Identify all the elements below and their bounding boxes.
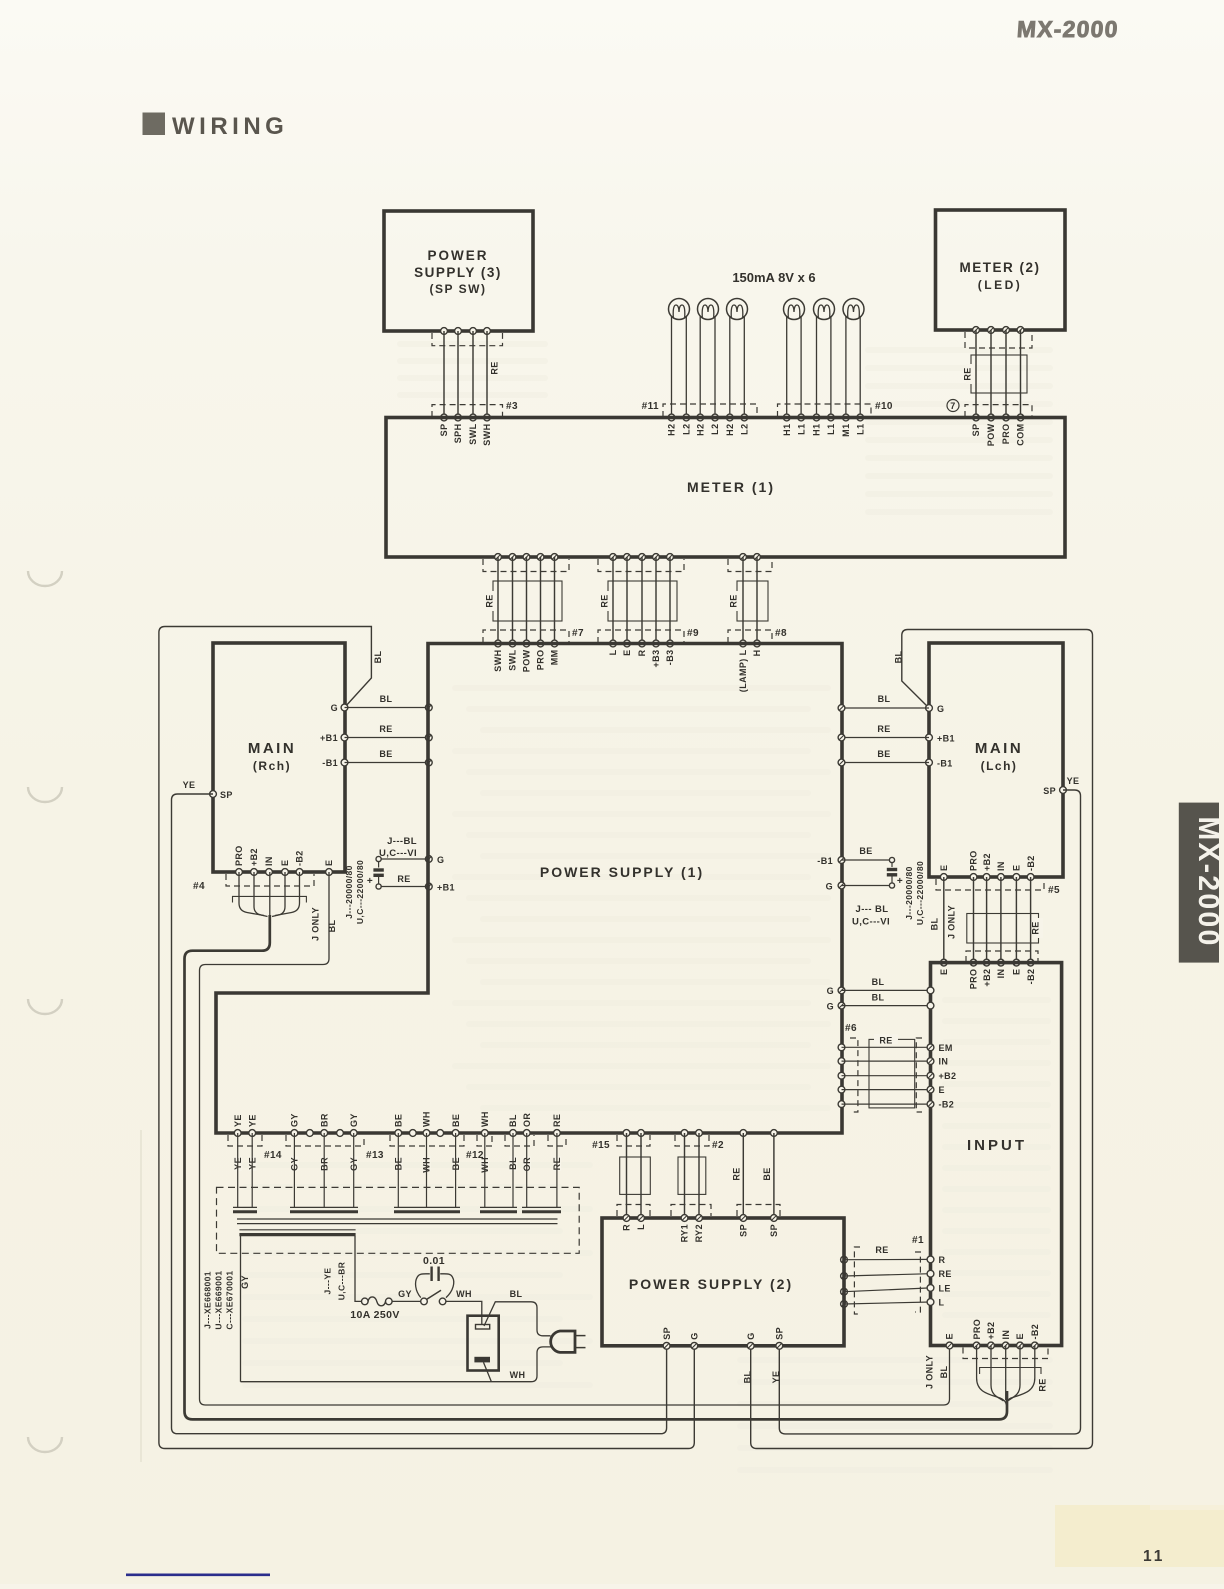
svg-text:MAIN: MAIN xyxy=(248,740,296,757)
svg-text:J--- BL: J--- BL xyxy=(856,904,889,915)
svg-text:BL: BL xyxy=(872,977,885,987)
labels J ONLY / BL on INPUT E wire xyxy=(925,1355,950,1389)
connector #8 upper dashed bracket xyxy=(728,559,772,572)
connector #7 pin labels xyxy=(493,649,560,672)
secondary wire color labels below edge xyxy=(233,1156,562,1173)
connector 7 pins on METER(1) top edge xyxy=(973,414,1024,421)
PS1 bottom pins above PS2 (R L RY1 RY2 SP SP) xyxy=(623,1130,777,1137)
svg-text:METER (2): METER (2) xyxy=(960,260,1041,275)
harness tie bracket #4 xyxy=(233,896,307,902)
pin labels R L RY1 RY2 SP SP xyxy=(622,1224,779,1242)
svg-text:BE: BE xyxy=(762,1167,772,1180)
svg-text:PRO: PRO xyxy=(969,969,979,990)
svg-text:SUPPLY (3): SUPPLY (3) xyxy=(414,265,502,280)
connector #6 dashed bracket left xyxy=(850,1038,858,1112)
svg-text:PRO: PRO xyxy=(536,650,546,671)
svg-text:J ONLY: J ONLY xyxy=(311,907,321,941)
svg-text:L: L xyxy=(608,649,618,655)
connector #4 dashed bracket and label xyxy=(193,874,314,892)
svg-text:BL: BL xyxy=(508,1114,518,1127)
block POWER SUPPLY (1) L-shaped xyxy=(216,644,842,1134)
svg-text:(SP SW): (SP SW) xyxy=(430,282,487,296)
svg-text:#10: #10 xyxy=(875,401,893,412)
connector dashed bracket under INPUT bottom pins xyxy=(963,1348,1048,1359)
svg-text:YE: YE xyxy=(771,1371,781,1384)
pin labels SP POW PRO COM xyxy=(971,423,1026,446)
PS2 right edge pins to connector #1 xyxy=(0,0,1,1)
svg-text:#2: #2 xyxy=(712,1140,724,1151)
svg-text:SWH: SWH xyxy=(493,650,503,672)
PS2 bottom edge pins SP G G SP xyxy=(663,1342,783,1349)
wire switch to AC receptacle WH xyxy=(446,1289,482,1325)
wire bundle INPUT bottom to frame (curves) xyxy=(977,1346,1035,1406)
connector #6 PS1-side pins xyxy=(838,1044,845,1108)
svg-text:L2: L2 xyxy=(740,424,750,435)
svg-text:#11: #11 xyxy=(642,401,659,412)
node -B1 MAIN Lch xyxy=(926,759,953,769)
wire YE speaker run left frame xyxy=(172,780,667,1434)
svg-text:GY: GY xyxy=(240,1275,250,1289)
svg-text:J---20000/80: J---20000/80 xyxy=(344,865,354,918)
svg-text:RE: RE xyxy=(600,594,610,607)
svg-text:E: E xyxy=(280,860,290,866)
connector #1 dashed bracket INPUT side xyxy=(915,1252,920,1312)
harness tie bracket #6 with RE label xyxy=(869,1034,915,1108)
wires PS1 to PS2 (R L RY1 RY2 SP SP) xyxy=(627,1133,774,1218)
pin labels E PRO +B2 IN E -B2 (INPUT top) xyxy=(939,969,1036,990)
svg-text:BL: BL xyxy=(939,1366,949,1379)
svg-text:11: 11 xyxy=(1143,1548,1165,1565)
svg-text:C---XE670001: C---XE670001 xyxy=(225,1270,235,1329)
svg-text:SWL: SWL xyxy=(468,423,478,444)
svg-text:SP: SP xyxy=(662,1327,672,1340)
svg-text:+B1: +B1 xyxy=(437,883,455,893)
connector #5 dashed bracket and label xyxy=(936,879,1060,896)
wire BE -B1 to PS1 xyxy=(345,749,429,763)
svg-text:#15: #15 xyxy=(592,1140,610,1151)
labels J ONLY / BL on Rch E wire xyxy=(311,907,338,941)
svg-text:#14: #14 xyxy=(264,1150,282,1161)
PS1 left edge pins G +B1 -B1 xyxy=(425,704,432,766)
svg-text:RE: RE xyxy=(485,594,495,607)
wire fuse to power switch GY xyxy=(392,1289,421,1301)
svg-text:E: E xyxy=(939,865,949,871)
svg-text:RE: RE xyxy=(963,367,973,380)
svg-text:+B2: +B2 xyxy=(249,848,259,866)
svg-text:150mA 8V x 6: 150mA 8V x 6 xyxy=(732,270,815,285)
svg-text:WH: WH xyxy=(456,1289,472,1299)
dashed brackets above PS2 top pins xyxy=(617,1205,780,1217)
connector #4 pins on MAIN Rch bottom edge xyxy=(236,869,333,876)
pin labels SP G G SP above PS2 bottom edge xyxy=(662,1327,785,1340)
svg-text:YE: YE xyxy=(1067,776,1080,786)
svg-text:#1: #1 xyxy=(912,1235,924,1246)
svg-text:COM: COM xyxy=(1016,424,1026,446)
svg-text:U,C---BR: U,C---BR xyxy=(337,1262,347,1301)
svg-text:E: E xyxy=(324,860,334,866)
wires MAIN Lch to INPUT top xyxy=(944,877,1031,963)
PS2 top edge pins xyxy=(623,1215,777,1222)
svg-text:SP: SP xyxy=(220,790,233,800)
svg-text:SP: SP xyxy=(739,1224,749,1237)
connector #15 dashed bracket and label xyxy=(592,1135,650,1151)
svg-text:H1: H1 xyxy=(782,424,792,436)
node +B1 MAIN Rch xyxy=(320,733,348,743)
svg-text:H: H xyxy=(752,650,762,657)
block POWER SUPPLY (3) (SP SW) xyxy=(384,211,533,331)
svg-text:H2: H2 xyxy=(725,424,735,436)
connector 7 dashed bracket xyxy=(965,405,1032,417)
svg-text:BL: BL xyxy=(872,992,885,1002)
wires R RE LE L PS2 to INPUT xyxy=(844,1245,931,1304)
wire harness METER(1) to PS1 #9 xyxy=(613,557,670,644)
svg-text:SP: SP xyxy=(1043,786,1056,796)
transformer T1 core xyxy=(237,1219,558,1224)
svg-text:IN: IN xyxy=(996,861,1006,871)
connector #2 dashed bracket and label xyxy=(675,1135,724,1151)
svg-text:OR: OR xyxy=(522,1113,532,1127)
dashed bracket above INPUT top pins xyxy=(966,951,1038,962)
svg-text:G: G xyxy=(690,1332,700,1339)
svg-text:PRO: PRO xyxy=(234,845,244,866)
connector #8 pins on METER(1) bottom edge xyxy=(740,554,761,561)
svg-text:U---XE669001: U---XE669001 xyxy=(214,1270,224,1329)
svg-text:POWER SUPPLY (2): POWER SUPPLY (2) xyxy=(629,1276,793,1292)
capacitor C-Lch value labels (vertical) xyxy=(904,861,925,925)
svg-text:+: + xyxy=(897,876,903,887)
svg-text:(Lch): (Lch) xyxy=(981,759,1018,773)
connector circled 7 mark xyxy=(947,400,959,412)
svg-text:-B2: -B2 xyxy=(1030,1324,1040,1340)
svg-text:J---XE668001: J---XE668001 xyxy=(203,1271,213,1329)
wire RE +B1 to PS1 (Lch) xyxy=(842,724,930,738)
electrolytic capacitor C-Lch 20000/80 across -B1 and G xyxy=(817,846,903,892)
INPUT bottom edge pins E PRO +B2 IN E -B2 xyxy=(946,1342,1038,1349)
connector #14 dashed bracket and label xyxy=(228,1135,282,1161)
block POWER SUPPLY (2) xyxy=(602,1218,844,1346)
svg-text:U,C---VI: U,C---VI xyxy=(379,848,417,859)
svg-text:L1: L1 xyxy=(855,424,865,435)
svg-text:YE: YE xyxy=(183,780,196,790)
harness tie bracket with RE label #8 xyxy=(729,581,768,621)
svg-text:BE: BE xyxy=(451,1114,461,1127)
connector #9 pins on PS1 top edge xyxy=(610,640,674,647)
svg-text:G: G xyxy=(826,882,833,892)
svg-text:#9: #9 xyxy=(687,628,699,639)
svg-text:WH: WH xyxy=(510,1370,526,1380)
connector #13 dashed bracket and label xyxy=(286,1135,384,1161)
svg-text:RE: RE xyxy=(490,361,500,374)
svg-text:PRO: PRO xyxy=(969,850,979,871)
transformer T1 dashed outline xyxy=(217,1187,580,1253)
svg-text:#12: #12 xyxy=(466,1150,484,1161)
AC plug P1 xyxy=(551,1331,586,1352)
wires G G BL BL PS1 to INPUT xyxy=(827,977,934,1012)
svg-text:SP: SP xyxy=(775,1327,785,1340)
electrolytic capacitor C-Rch 20000/80 across G and +B1 xyxy=(367,855,455,893)
svg-text:L2: L2 xyxy=(710,424,720,435)
svg-text:#8: #8 xyxy=(775,628,787,639)
connector #9 pins on METER(1) bottom edge xyxy=(610,554,674,561)
svg-text:RE: RE xyxy=(732,1167,742,1180)
svg-text:10A 250V: 10A 250V xyxy=(350,1309,400,1321)
harness tie bracket with RE label xyxy=(963,355,1027,393)
svg-text:J ONLY: J ONLY xyxy=(925,1355,935,1389)
svg-text:POWER: POWER xyxy=(427,248,488,263)
svg-text:U,C---VI: U,C---VI xyxy=(852,917,890,928)
connector #6 dashed bracket right xyxy=(916,1038,922,1112)
svg-text:SP: SP xyxy=(971,424,981,437)
connector on PS3 bottom edge (pins SP SPH SWL SWH) xyxy=(441,328,491,335)
wire harness METER(1) to PS1 #7 xyxy=(498,557,555,644)
svg-text:G: G xyxy=(437,855,444,865)
lamp pins on METER(1) top edge xyxy=(668,414,864,421)
wire bundle MAIN Rch #4 to INPUT via bottom frame (thick) xyxy=(185,872,1008,1419)
svg-text:POW: POW xyxy=(986,423,996,446)
node G MAIN Rch xyxy=(331,703,348,713)
svg-text:IN: IN xyxy=(996,969,1006,979)
svg-text:E: E xyxy=(939,1085,945,1095)
svg-text:-B1: -B1 xyxy=(937,759,953,769)
svg-text:H2: H2 xyxy=(695,424,705,436)
svg-text:BL: BL xyxy=(743,1371,753,1384)
svg-text:+B1: +B1 xyxy=(937,734,955,744)
connector #8 lower dashed bracket and label xyxy=(728,628,787,643)
svg-text:BE: BE xyxy=(859,846,872,856)
lamp PL5 (8V 150mA) xyxy=(814,299,835,418)
svg-text:G: G xyxy=(331,703,338,713)
svg-text:7: 7 xyxy=(950,401,955,411)
svg-text:RY1: RY1 xyxy=(680,1224,690,1242)
transformer T1 primary winding bar xyxy=(239,1230,355,1235)
svg-text:R: R xyxy=(622,1224,632,1231)
svg-text:BE: BE xyxy=(394,1114,404,1127)
svg-text:U,C---22000/80: U,C---22000/80 xyxy=(915,861,925,925)
pin labels E PRO +B2 IN E -B2 (Lch bottom) xyxy=(939,850,1036,871)
wire BL G to PS1 (Lch) xyxy=(842,694,930,708)
svg-text:#4: #4 xyxy=(193,881,205,892)
svg-text:L1: L1 xyxy=(826,424,836,435)
transformer T1 secondary pins on PS1 bottom edge xyxy=(234,1130,560,1137)
svg-text:BR: BR xyxy=(319,1113,329,1127)
svg-text:E: E xyxy=(939,969,949,975)
connector #6 INPUT-side pins with labels xyxy=(927,1043,956,1110)
svg-text:RY2: RY2 xyxy=(694,1224,704,1242)
svg-text:YE: YE xyxy=(247,1114,257,1127)
svg-text:BL: BL xyxy=(373,651,383,664)
lamp PL6 (8V 150mA) xyxy=(843,299,864,418)
svg-text:GY: GY xyxy=(290,1113,300,1127)
lamp PL2 (8V 150mA) xyxy=(698,299,719,418)
harness tie bracket #5 with RE label xyxy=(967,914,1043,944)
svg-text:R: R xyxy=(637,649,647,656)
svg-text:L1: L1 xyxy=(796,424,806,435)
node G MAIN Lch xyxy=(926,704,945,714)
svg-text:+B2: +B2 xyxy=(982,853,992,871)
block METER (2) (LED) xyxy=(936,210,1066,330)
svg-text:-B2: -B2 xyxy=(1026,855,1036,871)
connector #1 dashed bracket PS2 side xyxy=(854,1247,860,1314)
connector #9 upper dashed bracket xyxy=(598,559,684,572)
svg-text:G: G xyxy=(746,1332,756,1339)
svg-text:M1: M1 xyxy=(841,424,851,437)
svg-text:EM: EM xyxy=(939,1043,953,1053)
svg-text:IN: IN xyxy=(264,856,274,866)
svg-text:J---BL: J---BL xyxy=(387,836,417,847)
svg-text:+B2: +B2 xyxy=(982,969,992,987)
svg-text:U,C---22000/80: U,C---22000/80 xyxy=(355,860,365,924)
capacitor 0.01 across switch xyxy=(416,1255,454,1298)
AC receptacle (voltage selector) xyxy=(468,1316,499,1371)
svg-text:LE: LE xyxy=(939,1283,951,1293)
svg-text:#3: #3 xyxy=(506,401,518,412)
connector #10 dashed bracket and label xyxy=(778,401,893,417)
wire BE -B1 to PS1 (Lch) xyxy=(842,749,930,763)
svg-text:0.01: 0.01 xyxy=(423,1255,445,1267)
svg-text:-B2: -B2 xyxy=(939,1100,955,1110)
svg-text:G: G xyxy=(937,704,944,714)
svg-text:MX-2000: MX-2000 xyxy=(1192,816,1224,947)
svg-text:BE: BE xyxy=(877,749,890,759)
svg-text:E: E xyxy=(622,650,632,656)
connector #9 pin labels xyxy=(608,649,675,667)
lamp PL3 (8V 150mA) xyxy=(727,299,748,418)
PS1 right edge pins G +B1 -B1 (Lch) xyxy=(838,705,845,766)
transformer T1 secondary winding wires xyxy=(238,1133,557,1207)
block MAIN (Lch) xyxy=(929,643,1063,877)
wire harness METER(1) to PS1 #8 xyxy=(743,557,757,644)
block MAIN (Rch) xyxy=(213,643,345,872)
pin labels PRO +B2 IN E -B2 E xyxy=(234,845,334,866)
svg-text:L2: L2 xyxy=(682,424,692,435)
svg-text:E: E xyxy=(945,1333,955,1339)
svg-text:BL: BL xyxy=(327,920,337,933)
wires EM IN +B2 E -B2 PS1 to INPUT xyxy=(842,1047,931,1104)
svg-text:RE: RE xyxy=(552,1114,562,1127)
svg-text:RE: RE xyxy=(1031,921,1041,934)
svg-text:R: R xyxy=(939,1255,946,1265)
svg-text:#13: #13 xyxy=(366,1150,384,1161)
connector #7 upper dashed bracket xyxy=(483,559,569,572)
harness tie bracket with RE label #9 xyxy=(600,581,677,621)
svg-text:+B2: +B2 xyxy=(939,1071,957,1081)
svg-text:(LAMP) L: (LAMP) L xyxy=(738,649,748,692)
svg-text:E: E xyxy=(1012,865,1022,871)
pin labels above INPUT bottom edge xyxy=(945,1319,1040,1340)
svg-text:SWH: SWH xyxy=(482,424,492,446)
connector #7 pins on PS1 top edge xyxy=(495,640,558,647)
wire labels BL YE below PS2 xyxy=(743,1371,782,1384)
svg-text:-B2: -B2 xyxy=(295,850,305,866)
block METER (1) xyxy=(386,418,1065,558)
svg-text:RE: RE xyxy=(379,724,392,734)
svg-text:INPUT: INPUT xyxy=(967,1137,1027,1154)
svg-text:MAIN: MAIN xyxy=(975,740,1023,757)
svg-text:G: G xyxy=(827,986,834,996)
dashed bracket under METER(2) connector xyxy=(965,332,1032,348)
svg-text:#6: #6 xyxy=(845,1023,857,1034)
small dashed brackets WH BL OR RE xyxy=(477,1135,566,1146)
svg-text:-B1: -B1 xyxy=(322,758,338,768)
wire harness PS3 to METER(1) connector #3 xyxy=(444,331,487,418)
svg-text:RE: RE xyxy=(877,724,890,734)
svg-text:SWL: SWL xyxy=(508,649,518,670)
svg-text:H2: H2 xyxy=(667,424,677,436)
svg-text:+: + xyxy=(367,876,373,887)
svg-text:MM: MM xyxy=(550,650,560,666)
pin labels SP SPH SWL SWH xyxy=(439,423,492,445)
connector #1 PS2-side pins xyxy=(841,1256,848,1307)
svg-text:RE: RE xyxy=(397,874,410,884)
connector #11 dashed bracket and label xyxy=(642,401,757,417)
svg-text:RE: RE xyxy=(875,1245,888,1255)
svg-text:#7: #7 xyxy=(572,628,584,639)
lamp PL1 (8V 150mA) xyxy=(669,299,690,418)
svg-text:-B2: -B2 xyxy=(1026,969,1036,985)
node SP MAIN Lch with YE wire to PS2 SP via right frame xyxy=(1043,786,1066,796)
transformer T1 secondary winding bars xyxy=(233,1207,561,1211)
power switch SW1 xyxy=(421,1290,446,1305)
lamp pin labels H2/L2 and H1/M1/L1 xyxy=(667,424,866,437)
svg-text:H1: H1 xyxy=(812,424,822,436)
wire BL G to PS1 xyxy=(345,694,429,708)
block INPUT xyxy=(931,963,1062,1346)
svg-text:(LED): (LED) xyxy=(978,278,1023,292)
svg-text:RE: RE xyxy=(879,1036,892,1046)
svg-text:J---20000/80: J---20000/80 xyxy=(904,866,914,919)
shield box around RY1 RY2 pair xyxy=(678,1157,706,1194)
fuse F1 10A 250V xyxy=(350,1297,400,1321)
svg-text:SPH: SPH xyxy=(453,424,463,444)
node -B1 MAIN Rch xyxy=(322,758,348,768)
wire WH receptacle return to transformer and plug lower prong xyxy=(241,1347,552,1382)
svg-text:GY: GY xyxy=(398,1289,412,1299)
svg-text:#5: #5 xyxy=(1048,885,1060,896)
connector #8 pin labels xyxy=(738,649,762,692)
svg-text:POW: POW xyxy=(522,649,532,672)
INPUT top edge pins xyxy=(940,959,1034,966)
svg-text:E: E xyxy=(1015,1333,1025,1339)
svg-text:RE: RE xyxy=(939,1269,952,1279)
svg-text:L: L xyxy=(939,1298,945,1308)
svg-text:YE: YE xyxy=(233,1114,243,1127)
svg-text:IN: IN xyxy=(939,1057,949,1067)
svg-text:WH: WH xyxy=(480,1111,490,1127)
connector #3 dashed bracket and label xyxy=(432,401,518,417)
capacitor C-Rch value labels 20000/80 22000/80 (vertical) xyxy=(344,860,365,924)
node +B1 MAIN Lch xyxy=(926,734,955,744)
connector #3 pins on METER(1) top edge xyxy=(441,414,491,421)
connector #1 INPUT-side pins with labels R RE LE L xyxy=(927,1255,952,1308)
svg-text:BL: BL xyxy=(510,1289,523,1299)
capacitor C-Lch color code labels J--- BL U,C---VI xyxy=(852,904,890,928)
harness tie bracket with RE label (INPUT bottom) xyxy=(980,1368,1048,1392)
transformer part numbers J---XE668001 U---XE669001 C---XE670001 (vertical) xyxy=(203,1270,235,1329)
wire J ONLY BL from MAIN Rch E to INPUT E via bottom frame xyxy=(200,872,950,1405)
wire GY primary left to AC return xyxy=(240,1236,250,1382)
svg-text:(Rch): (Rch) xyxy=(253,759,291,773)
capacitor C-Rch color code labels J---BL U,C---VI xyxy=(379,836,417,859)
wire harness METER(2) to METER(1) connector 7 xyxy=(976,330,1021,418)
svg-text:SP: SP xyxy=(439,424,449,437)
svg-text:G: G xyxy=(827,1002,834,1012)
svg-text:BE: BE xyxy=(379,749,392,759)
wire BL from MAIN Lch G around right frame to PS2 G xyxy=(751,630,1093,1449)
svg-text:+B1: +B1 xyxy=(320,733,338,743)
svg-text:POWER SUPPLY (1): POWER SUPPLY (1) xyxy=(540,864,704,880)
wire color labels RE BE (SP wires) xyxy=(732,1167,773,1180)
connector #8 pins on PS1 top edge xyxy=(740,640,761,647)
